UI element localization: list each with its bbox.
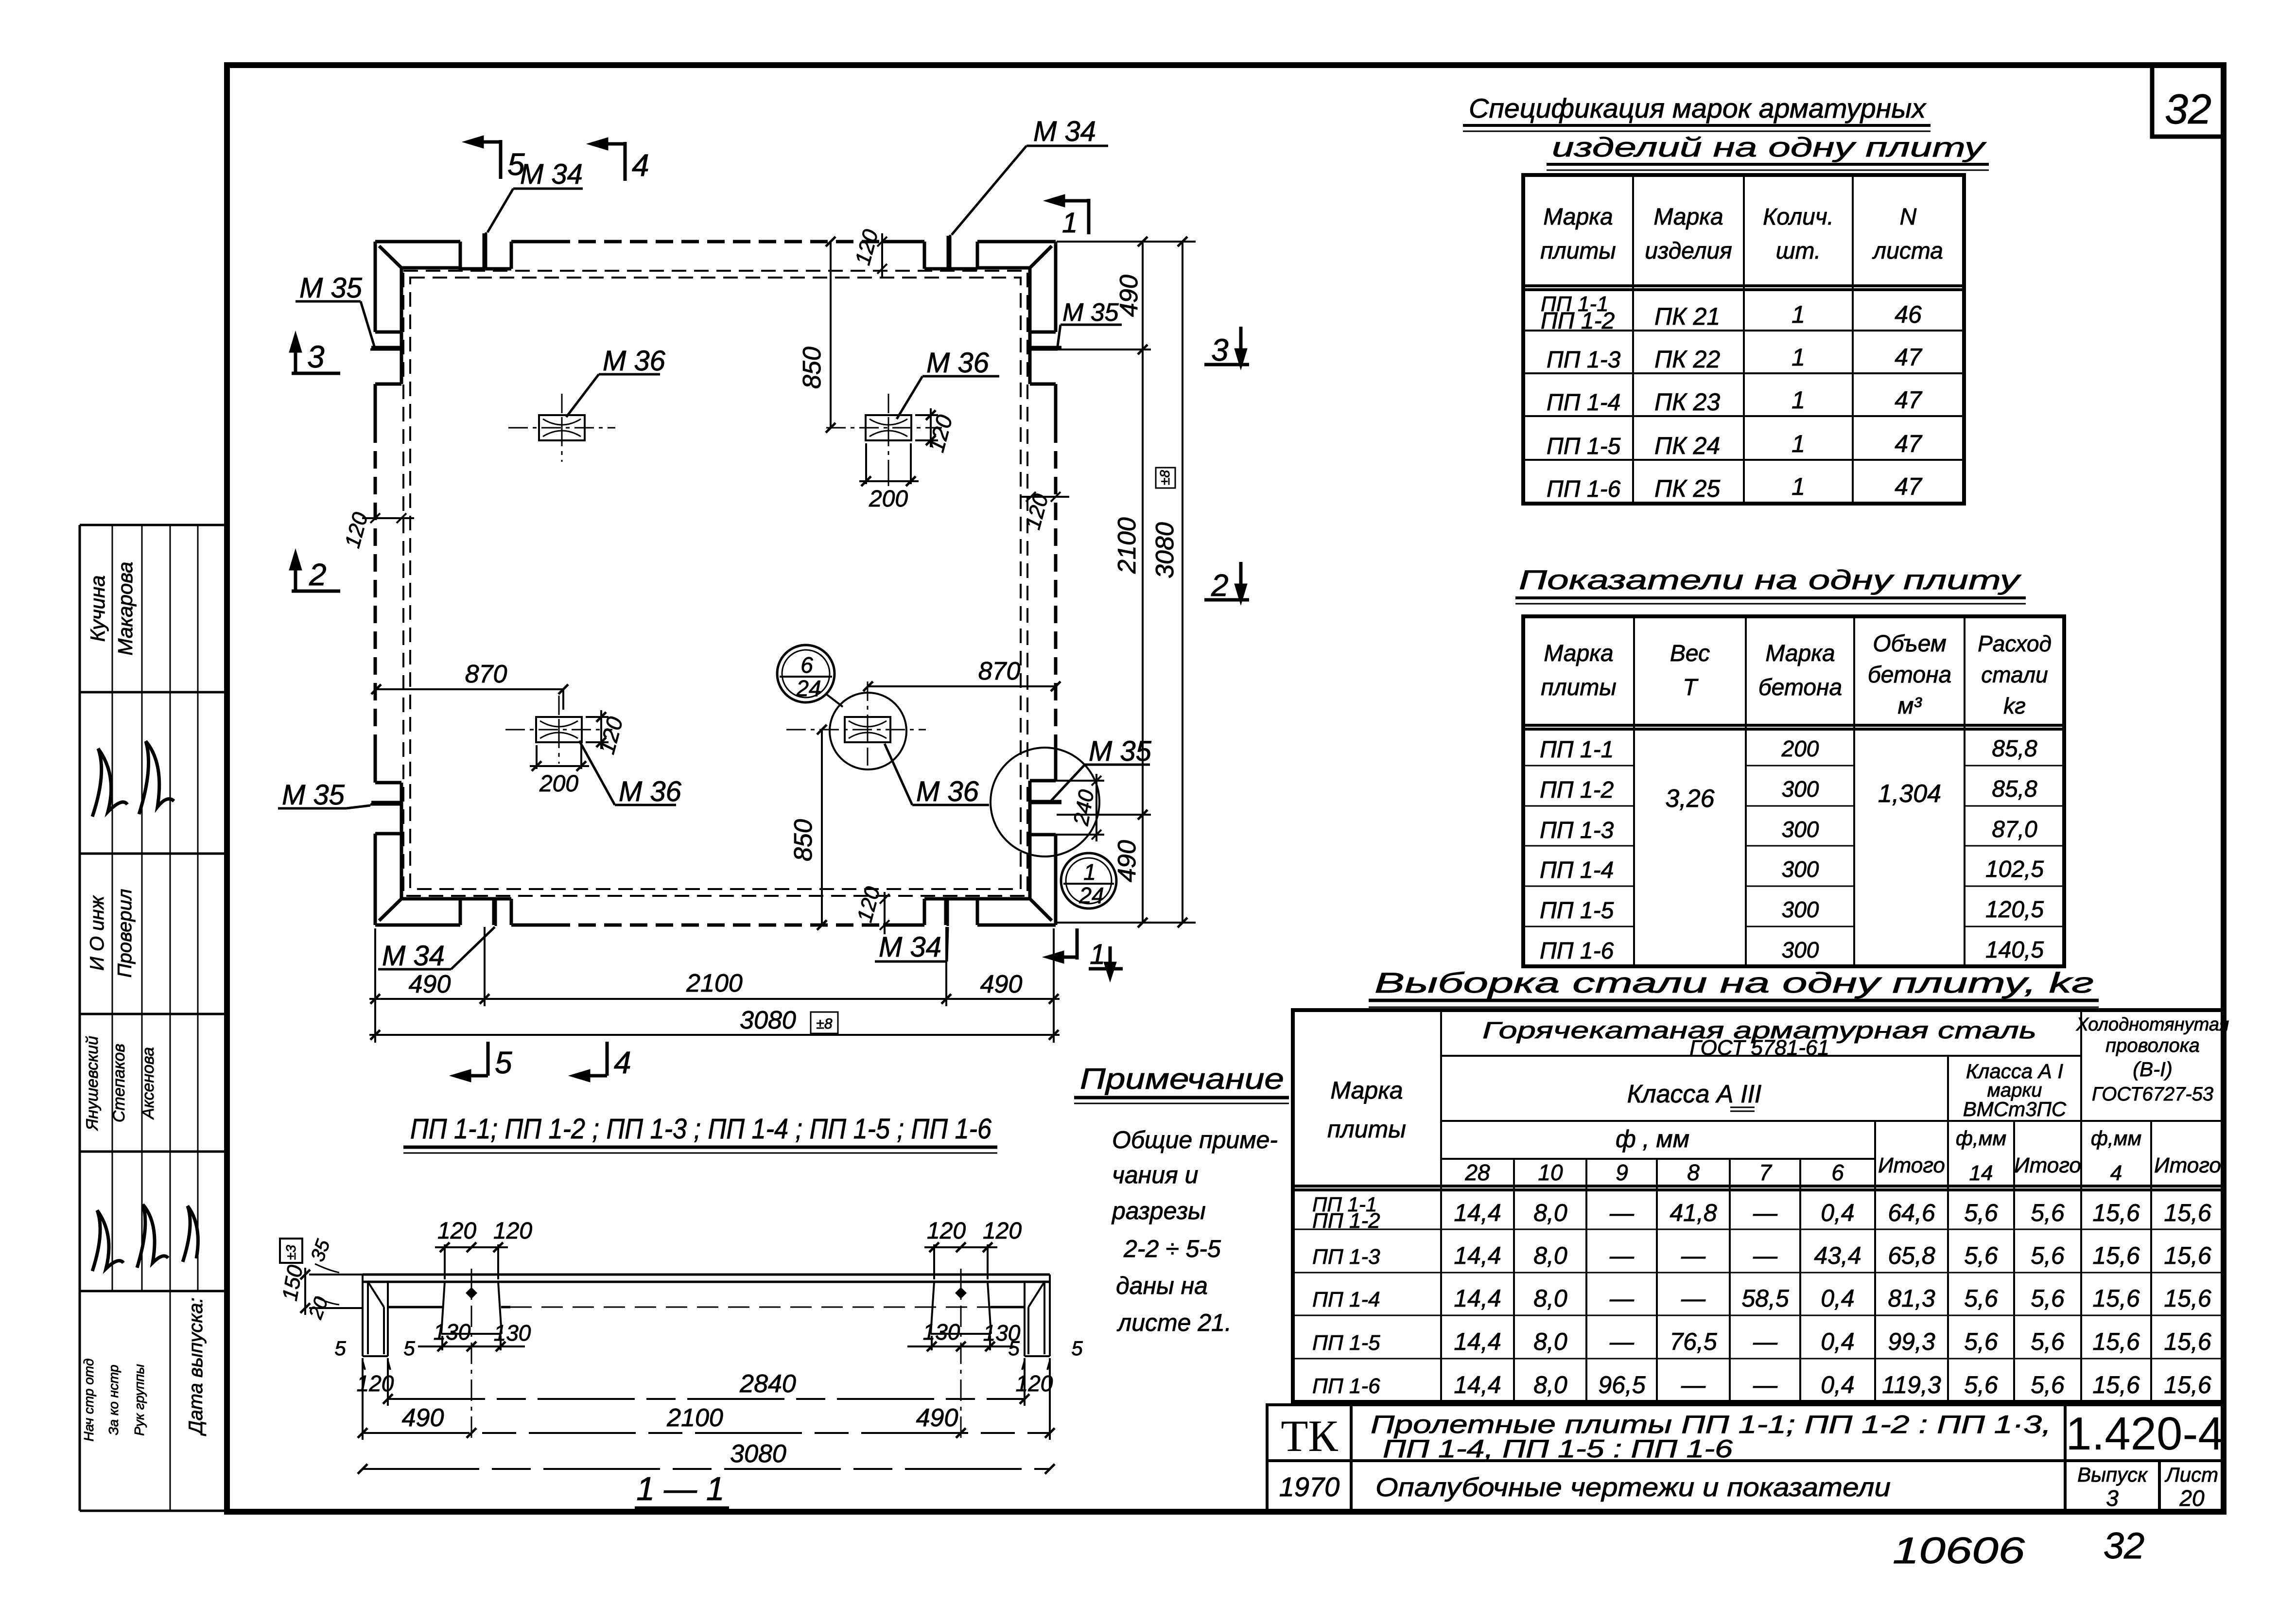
svg-text:5,6: 5,6 bbox=[1964, 1371, 1998, 1398]
svg-text:5,6: 5,6 bbox=[1964, 1285, 1998, 1312]
svg-text:За ко нстр: За ко нстр bbox=[106, 1364, 121, 1435]
svg-text:Итого: Итого bbox=[1878, 1153, 1945, 1177]
table 1 grid bbox=[1523, 175, 1964, 504]
dim 120 120 above left rib bbox=[435, 1242, 508, 1279]
dim 120 top edge strip bbox=[877, 233, 887, 277]
svg-text:ПП 1-4: ПП 1-4 bbox=[1540, 857, 1614, 883]
svg-text:ПП 1-4, ПП 1-5 : ПП 1-6: ПП 1-4, ПП 1-5 : ПП 1-6 bbox=[1383, 1435, 1733, 1463]
svg-text:ПК 25: ПК 25 bbox=[1654, 475, 1720, 502]
svg-text:3,26: 3,26 bbox=[1665, 785, 1714, 813]
svg-text:9: 9 bbox=[1616, 1160, 1628, 1185]
dim 130 130 below left rib bbox=[418, 1336, 525, 1351]
svg-text:—: — bbox=[1609, 1199, 1635, 1226]
svg-text:120,5: 120,5 bbox=[1985, 897, 2044, 923]
anchor leader M34 bottom-left bbox=[378, 899, 496, 969]
svg-text:—: — bbox=[1609, 1285, 1635, 1312]
svg-text:870: 870 bbox=[978, 657, 1021, 685]
dim 120 fitting top-right bbox=[915, 408, 938, 447]
svg-text:Дата выпуска:: Дата выпуска: bbox=[185, 1297, 207, 1436]
svg-text:0,4: 0,4 bbox=[1821, 1328, 1855, 1355]
anchor leader M34 top-right bbox=[950, 146, 1108, 268]
svg-text:Общие приме-: Общие приме- bbox=[1112, 1126, 1278, 1153]
svg-text:2: 2 bbox=[1211, 568, 1229, 603]
section dim 3080 bbox=[358, 1464, 1055, 1474]
svg-text:4: 4 bbox=[2110, 1161, 2122, 1185]
svg-text:300: 300 bbox=[1782, 937, 1819, 962]
detail bubble 6/24 bbox=[777, 645, 835, 702]
svg-text:490: 490 bbox=[1115, 275, 1143, 317]
svg-text:ПП 1-2: ПП 1-2 bbox=[1541, 308, 1615, 334]
svg-text:1: 1 bbox=[1083, 859, 1096, 885]
svg-text:Объем: Объем bbox=[1873, 631, 1947, 657]
svg-text:1: 1 bbox=[1792, 473, 1805, 500]
svg-text:ВМСт3ПС: ВМСт3ПС bbox=[1963, 1098, 2067, 1120]
svg-text:ПП 1-2: ПП 1-2 bbox=[1312, 1209, 1380, 1233]
svg-text:Янушевский: Янушевский bbox=[83, 1036, 102, 1131]
sheet border frame bbox=[227, 65, 2224, 1512]
dim 850 top bbox=[826, 237, 835, 433]
svg-text:5,6: 5,6 bbox=[1964, 1328, 1998, 1355]
table 2 grid bbox=[1523, 616, 2064, 966]
svg-text:15,6: 15,6 bbox=[2092, 1328, 2140, 1355]
svg-text:ПК 24: ПК 24 bbox=[1654, 432, 1720, 459]
svg-text:М 34: М 34 bbox=[520, 158, 583, 190]
left title strip table bbox=[80, 525, 227, 1511]
svg-text:490: 490 bbox=[402, 1404, 444, 1432]
svg-text:М 36: М 36 bbox=[619, 776, 682, 807]
svg-text:листе 21.: листе 21. bbox=[1116, 1309, 1232, 1336]
svg-text:Кучина: Кучина bbox=[86, 576, 109, 642]
svg-text:Холоднотянутая: Холоднотянутая bbox=[2076, 1014, 2229, 1035]
svg-text:32: 32 bbox=[2104, 1525, 2145, 1567]
svg-text:1.420-4: 1.420-4 bbox=[2066, 1408, 2224, 1460]
svg-text:ПП 1-4: ПП 1-4 bbox=[1312, 1288, 1380, 1311]
svg-text:М 35: М 35 bbox=[1062, 298, 1119, 327]
svg-text:490: 490 bbox=[1113, 840, 1141, 882]
svg-text:3080: 3080 bbox=[1151, 522, 1179, 578]
svg-text:N: N bbox=[1900, 204, 1917, 230]
svg-text:120: 120 bbox=[851, 227, 883, 267]
svg-text:4: 4 bbox=[632, 148, 649, 183]
section marker 1 bottom-right bbox=[1048, 928, 1123, 977]
section dim 490 2100 490 bbox=[358, 1358, 1055, 1440]
svg-text:ГОСТ6727-53: ГОСТ6727-53 bbox=[2092, 1083, 2213, 1105]
svg-text:15,6: 15,6 bbox=[2164, 1328, 2211, 1355]
svg-text:2100: 2100 bbox=[686, 969, 743, 997]
svg-text:81,3: 81,3 bbox=[1888, 1285, 1935, 1312]
svg-text:—: — bbox=[1753, 1328, 1778, 1355]
section left small dims 150 bbox=[300, 1268, 363, 1315]
svg-text:1: 1 bbox=[1792, 386, 1805, 414]
svg-text:119,3: 119,3 bbox=[1882, 1371, 1941, 1398]
svg-text:7: 7 bbox=[1759, 1160, 1772, 1185]
svg-text:проволока: проволока bbox=[2105, 1035, 2200, 1056]
svg-text:М 34: М 34 bbox=[1033, 116, 1096, 147]
svg-text:Проверил: Проверил bbox=[114, 889, 136, 978]
svg-text:41,8: 41,8 bbox=[1670, 1199, 1717, 1226]
detail circle around M35 notch bbox=[991, 748, 1099, 856]
leader M36 top-right bbox=[897, 376, 999, 419]
svg-text:1: 1 bbox=[1062, 207, 1078, 239]
svg-text:14,4: 14,4 bbox=[1454, 1371, 1501, 1398]
table 3 data row lines bbox=[1293, 1229, 2224, 1359]
svg-text:120: 120 bbox=[437, 1218, 476, 1244]
svg-text:ПП 1-3: ПП 1-3 bbox=[1540, 818, 1614, 843]
svg-text:Степаков: Степаков bbox=[110, 1044, 128, 1122]
svg-text:Спецификация марок арматурны: Спецификация марок арматурных bbox=[1469, 93, 1927, 123]
svg-text:120: 120 bbox=[1016, 1371, 1053, 1396]
section right rib bbox=[931, 1269, 991, 1439]
svg-text:0,4: 0,4 bbox=[1821, 1199, 1855, 1226]
svg-text:20: 20 bbox=[2179, 1485, 2205, 1511]
section marker 2 right bbox=[1204, 562, 1249, 600]
dim 120 left edge strip bbox=[362, 513, 414, 523]
dim 120 120 above right rib bbox=[924, 1242, 997, 1279]
table 3 outer and header grid bbox=[1293, 1010, 2224, 1402]
svg-text:47: 47 bbox=[1895, 386, 1923, 414]
svg-text:ПК 21: ПК 21 bbox=[1654, 303, 1720, 330]
svg-text:24: 24 bbox=[796, 676, 821, 701]
svg-text:ПП 1-4: ПП 1-4 bbox=[1547, 390, 1620, 416]
svg-text:Макарова: Макарова bbox=[114, 561, 137, 655]
anchor leader M34 top-left bbox=[486, 189, 583, 268]
svg-text:10606: 10606 bbox=[1893, 1530, 2025, 1572]
svg-text:35: 35 bbox=[307, 1237, 334, 1265]
svg-text:300: 300 bbox=[1782, 856, 1819, 882]
plan corner block top-right bbox=[977, 242, 1056, 332]
svg-text:ПП 1-3: ПП 1-3 bbox=[1312, 1245, 1380, 1269]
svg-text:—: — bbox=[1753, 1242, 1778, 1269]
svg-text:разрезы: разрезы bbox=[1111, 1197, 1206, 1224]
svg-text:ф , мм: ф , мм bbox=[1616, 1125, 1689, 1153]
svg-text:М 34: М 34 bbox=[879, 931, 941, 963]
dim 120 fitting bottom-left bbox=[586, 710, 609, 749]
dim 200 fitting bottom-left bbox=[530, 745, 589, 771]
svg-text:490: 490 bbox=[980, 970, 1023, 998]
svg-text:8,0: 8,0 bbox=[1533, 1199, 1567, 1226]
section marker 3 right bbox=[1204, 327, 1249, 365]
svg-text:130: 130 bbox=[494, 1320, 531, 1345]
section marker 5 bottom bbox=[455, 1042, 488, 1080]
svg-text:плиты: плиты bbox=[1327, 1116, 1406, 1143]
svg-text:1 — 1: 1 — 1 bbox=[636, 1470, 724, 1507]
svg-text:200: 200 bbox=[539, 771, 578, 797]
svg-text:2: 2 bbox=[309, 557, 327, 592]
svg-text:И О инж: И О инж bbox=[87, 895, 108, 971]
svg-text:—: — bbox=[1681, 1242, 1706, 1269]
svg-text:Колич.: Колич. bbox=[1763, 204, 1834, 230]
svg-text:5: 5 bbox=[495, 1045, 512, 1080]
svg-text:(В-I): (В-I) bbox=[2133, 1058, 2173, 1081]
svg-text:kг: kг bbox=[2003, 693, 2026, 718]
detail bubble 1/24 bbox=[1061, 853, 1116, 908]
leader M36 top-left bbox=[566, 374, 660, 417]
svg-text:200: 200 bbox=[1781, 736, 1819, 761]
svg-text:—: — bbox=[1753, 1199, 1778, 1226]
svg-text:47: 47 bbox=[1895, 430, 1923, 457]
svg-text:М 36: М 36 bbox=[603, 345, 666, 377]
section left rib bbox=[441, 1269, 502, 1439]
svg-text:ГОСТ 5781-61: ГОСТ 5781-61 bbox=[1689, 1036, 1829, 1060]
dim 870 right bbox=[863, 681, 1061, 691]
svg-text:150: 150 bbox=[278, 1263, 308, 1302]
svg-text:490: 490 bbox=[916, 1404, 958, 1432]
svg-text:5,6: 5,6 bbox=[2031, 1371, 2065, 1398]
svg-text:ф,мм: ф,мм bbox=[1956, 1127, 2006, 1150]
section marker 1 top-right bbox=[1049, 196, 1089, 234]
svg-text:15,6: 15,6 bbox=[2092, 1371, 2140, 1398]
section marker 5 top bbox=[468, 138, 501, 179]
svg-text:М 34: М 34 bbox=[382, 940, 445, 972]
anchor leader M35 right-top bbox=[1030, 325, 1122, 349]
svg-text:ПК 22: ПК 22 bbox=[1654, 346, 1720, 373]
svg-text:Класса А I: Класса А I bbox=[1966, 1060, 2064, 1083]
svg-text:15,6: 15,6 bbox=[2164, 1242, 2211, 1269]
svg-text:бетона: бетона bbox=[1758, 675, 1842, 700]
svg-text:—: — bbox=[1681, 1371, 1706, 1398]
section marker 3 left bbox=[291, 336, 340, 373]
svg-text:шт.: шт. bbox=[1776, 238, 1821, 264]
svg-text:76,5: 76,5 bbox=[1670, 1328, 1717, 1355]
svg-text:14,4: 14,4 bbox=[1454, 1285, 1501, 1312]
svg-text:120: 120 bbox=[927, 1218, 966, 1244]
svg-text:58,5: 58,5 bbox=[1741, 1285, 1789, 1312]
svg-text:1970: 1970 bbox=[1279, 1471, 1340, 1502]
svg-text:2100: 2100 bbox=[666, 1404, 723, 1432]
svg-text:130: 130 bbox=[923, 1319, 960, 1345]
section right leg bbox=[1025, 1275, 1050, 1356]
svg-text:Расход: Расход bbox=[1978, 631, 2052, 656]
svg-text:5: 5 bbox=[1071, 1337, 1083, 1360]
dim 240 right notch bbox=[1056, 774, 1104, 841]
svg-text:ТК: ТК bbox=[1281, 1411, 1338, 1461]
svg-text:2840: 2840 bbox=[739, 1370, 796, 1398]
svg-text:—: — bbox=[1609, 1328, 1635, 1355]
svg-text:5,6: 5,6 bbox=[1964, 1242, 1998, 1269]
svg-text:Выпуск: Выпуск bbox=[2077, 1463, 2148, 1486]
svg-text:14,4: 14,4 bbox=[1454, 1242, 1501, 1269]
svg-text:0,4: 0,4 bbox=[1821, 1285, 1855, 1312]
table 2 row lines col1 col3 col5 bbox=[1523, 766, 2064, 926]
svg-text:65,8: 65,8 bbox=[1888, 1242, 1935, 1269]
svg-text:Выборка стали на одну плит: Выборка стали на одну плиту, kг bbox=[1374, 967, 2094, 999]
svg-text:8,0: 8,0 bbox=[1533, 1328, 1567, 1355]
svg-text:8,0: 8,0 bbox=[1533, 1242, 1567, 1269]
svg-text:46: 46 bbox=[1895, 301, 1922, 328]
svg-text:Показатели на одну плиту: Показатели на одну плиту bbox=[1519, 564, 2021, 595]
plan left edge bbox=[375, 332, 401, 834]
svg-text:чания и: чания и bbox=[1112, 1161, 1198, 1188]
anchor leader M35 right-bottom bbox=[1030, 765, 1150, 803]
svg-text:14: 14 bbox=[1969, 1161, 1993, 1185]
left strip signatures row5 bbox=[92, 1205, 198, 1271]
svg-text:24: 24 bbox=[1078, 883, 1104, 908]
svg-text:ПП 1-2: ПП 1-2 bbox=[1540, 777, 1614, 803]
svg-text:1: 1 bbox=[1792, 344, 1805, 371]
svg-text:ПП 1-5: ПП 1-5 bbox=[1547, 434, 1621, 459]
svg-text:15,6: 15,6 bbox=[2092, 1285, 2140, 1312]
svg-text:—: — bbox=[1681, 1285, 1706, 1312]
svg-text:3080: 3080 bbox=[740, 1006, 796, 1034]
svg-text:8,0: 8,0 bbox=[1533, 1371, 1567, 1398]
svg-text:М 35: М 35 bbox=[299, 272, 363, 304]
svg-text:Опалубочные чертежи и показ: Опалубочные чертежи и показатели bbox=[1375, 1473, 1891, 1502]
dim 200 fitting top-right bbox=[859, 443, 919, 486]
svg-text:85,8: 85,8 bbox=[1992, 776, 2037, 802]
svg-text:490: 490 bbox=[409, 970, 451, 998]
svg-text:ПП 1-1; ПП 1-2 ; ПП 1-3 ; ПП 1: ПП 1-1; ПП 1-2 ; ПП 1-3 ; ПП 1-4 ; ПП 1-… bbox=[410, 1113, 992, 1145]
svg-text:листа: листа bbox=[1872, 238, 1943, 264]
svg-text:Аксенова: Аксенова bbox=[139, 1047, 157, 1120]
svg-text:1,304: 1,304 bbox=[1878, 780, 1941, 808]
section dim 2840 bbox=[383, 1358, 1029, 1406]
svg-text:140,5: 140,5 bbox=[1985, 937, 2044, 963]
svg-text:3: 3 bbox=[1211, 332, 1229, 367]
svg-text:15,6: 15,6 bbox=[2092, 1242, 2140, 1269]
plan right edge bbox=[1030, 332, 1056, 835]
svg-text:850: 850 bbox=[789, 819, 818, 861]
svg-text:47: 47 bbox=[1895, 473, 1923, 500]
detail circle around fitting bbox=[830, 693, 906, 769]
svg-text:0,4: 0,4 bbox=[1821, 1371, 1855, 1398]
svg-text:28: 28 bbox=[1464, 1160, 1490, 1185]
svg-text:15,6: 15,6 bbox=[2092, 1199, 2140, 1226]
svg-text:ПП 1-5: ПП 1-5 bbox=[1312, 1331, 1380, 1355]
svg-text:32: 32 bbox=[2165, 86, 2211, 133]
anchor leader M34 bottom-right bbox=[875, 899, 948, 961]
svg-text:85,8: 85,8 bbox=[1992, 736, 2037, 762]
dim 850 bottom bbox=[817, 725, 827, 930]
svg-text:даны на: даны на bbox=[1116, 1272, 1208, 1299]
svg-text:±3: ±3 bbox=[283, 1245, 298, 1260]
svg-text:Вес: Вес bbox=[1670, 641, 1710, 666]
svg-text:Марка: Марка bbox=[1330, 1077, 1403, 1104]
anchor fitting M36 top-left bbox=[508, 394, 615, 462]
svg-text:ПК 23: ПК 23 bbox=[1654, 388, 1720, 416]
svg-text:Лист: Лист bbox=[2164, 1463, 2218, 1486]
svg-text:—: — bbox=[1753, 1371, 1778, 1398]
svg-text:ф,мм: ф,мм bbox=[2091, 1127, 2141, 1150]
svg-text:120: 120 bbox=[340, 509, 372, 550]
svg-text:Марка: Марка bbox=[1653, 204, 1723, 230]
svg-text:1: 1 bbox=[1090, 939, 1105, 970]
sheet number box 32 bbox=[2152, 65, 2224, 137]
svg-text:ПП 1-6: ПП 1-6 bbox=[1312, 1374, 1380, 1398]
svg-text:Итого: Итого bbox=[2154, 1153, 2221, 1177]
svg-text:43,4: 43,4 bbox=[1814, 1242, 1861, 1269]
svg-text:М 36: М 36 bbox=[916, 776, 979, 807]
svg-text:850: 850 bbox=[798, 347, 826, 389]
svg-text:5,6: 5,6 bbox=[2031, 1285, 2065, 1312]
svg-text:М 36: М 36 bbox=[926, 347, 990, 379]
anchor fitting M36 top-right bbox=[826, 394, 942, 486]
svg-text:стали: стали bbox=[1981, 662, 2048, 687]
svg-text:120: 120 bbox=[983, 1218, 1022, 1244]
svg-text:240: 240 bbox=[1069, 787, 1098, 827]
section marker 4 top bbox=[592, 140, 625, 181]
plan corner block bottom-left bbox=[375, 834, 460, 925]
svg-text:ПП 1-5: ПП 1-5 bbox=[1540, 898, 1614, 924]
svg-text:Марка: Марка bbox=[1765, 641, 1835, 666]
svg-text:87,0: 87,0 bbox=[1992, 817, 2037, 842]
svg-text:Рук группы: Рук группы bbox=[132, 1364, 147, 1436]
svg-text:99,3: 99,3 bbox=[1888, 1328, 1935, 1355]
svg-text:8: 8 bbox=[1687, 1160, 1700, 1185]
plan hidden inner edge dashed rectangles bbox=[403, 271, 1027, 896]
svg-text:±8: ±8 bbox=[1157, 470, 1172, 485]
left strip signatures row2 bbox=[92, 741, 174, 817]
section left leg bbox=[363, 1275, 388, 1356]
svg-text:3: 3 bbox=[307, 339, 325, 374]
svg-text:Примечание: Примечание bbox=[1080, 1063, 1284, 1095]
svg-text:8,0: 8,0 bbox=[1533, 1285, 1567, 1312]
svg-text:300: 300 bbox=[1782, 897, 1819, 922]
svg-text:1: 1 bbox=[1792, 430, 1805, 457]
leader M36 bottom-left bbox=[579, 741, 676, 805]
svg-text:5: 5 bbox=[334, 1337, 346, 1360]
svg-text:130: 130 bbox=[434, 1319, 471, 1345]
svg-text:14,4: 14,4 bbox=[1454, 1328, 1501, 1355]
svg-text:—: — bbox=[1609, 1242, 1635, 1269]
svg-text:бетона: бетона bbox=[1868, 662, 1951, 688]
svg-text:300: 300 bbox=[1782, 776, 1819, 802]
plan corner block top-left bbox=[375, 242, 460, 332]
svg-text:5: 5 bbox=[403, 1337, 415, 1360]
svg-text:2-2 ÷ 5-5: 2-2 ÷ 5-5 bbox=[1123, 1235, 1221, 1262]
svg-text:Марка: Марка bbox=[1543, 204, 1613, 230]
anchor leader M35 left-bottom bbox=[278, 804, 401, 808]
dim 120 bottom edge strip bbox=[880, 892, 889, 934]
svg-text:плиты: плиты bbox=[1540, 238, 1616, 264]
svg-text:15,6: 15,6 bbox=[2164, 1199, 2211, 1226]
svg-text:102,5: 102,5 bbox=[1985, 856, 2044, 882]
svg-text:ПП 1-1: ПП 1-1 bbox=[1540, 737, 1614, 763]
section marker 4 bottom bbox=[574, 1042, 607, 1080]
svg-text:200: 200 bbox=[869, 486, 908, 512]
svg-text:ПП 1-6: ПП 1-6 bbox=[1547, 476, 1621, 502]
svg-text:±8: ±8 bbox=[816, 1016, 832, 1032]
bottom dimension line 490/2100/490 bbox=[369, 927, 1060, 1043]
svg-text:изделия: изделия bbox=[1645, 238, 1732, 264]
plan bottom edge bbox=[458, 899, 977, 925]
svg-text:Нач стр отд: Нач стр отд bbox=[81, 1359, 96, 1442]
svg-text:2100: 2100 bbox=[1113, 517, 1141, 574]
anchor fitting M36 bottom-right circled bbox=[786, 681, 926, 766]
svg-text:120: 120 bbox=[852, 884, 885, 925]
section marker 2 left bbox=[291, 554, 340, 591]
bottom dimension line 3080 bbox=[369, 1030, 1060, 1040]
svg-text:5,6: 5,6 bbox=[2031, 1328, 2065, 1355]
anchor leader M35 left-top bbox=[296, 301, 401, 349]
svg-text:1: 1 bbox=[1792, 301, 1805, 328]
svg-text:Класса А III: Класса А III bbox=[1627, 1080, 1762, 1108]
svg-text:3080: 3080 bbox=[730, 1440, 786, 1468]
dim 120 right edge strip bbox=[1022, 492, 1069, 502]
svg-text:5,6: 5,6 bbox=[1964, 1199, 1998, 1226]
tolerance box section bbox=[280, 1239, 302, 1263]
svg-text:14,4: 14,4 bbox=[1454, 1199, 1501, 1226]
svg-text:ПП 1-6: ПП 1-6 bbox=[1540, 938, 1614, 964]
svg-text:м³: м³ bbox=[1898, 693, 1923, 719]
svg-text:15,6: 15,6 bbox=[2164, 1285, 2211, 1312]
svg-text:870: 870 bbox=[465, 660, 507, 688]
svg-text:96,5: 96,5 bbox=[1598, 1371, 1646, 1398]
svg-text:ПП 1-3: ПП 1-3 bbox=[1547, 347, 1621, 373]
svg-text:Т: Т bbox=[1683, 675, 1699, 700]
dim 870 left bbox=[371, 684, 568, 710]
svg-text:5: 5 bbox=[1008, 1337, 1020, 1360]
svg-text:Итого: Итого bbox=[2014, 1153, 2081, 1177]
